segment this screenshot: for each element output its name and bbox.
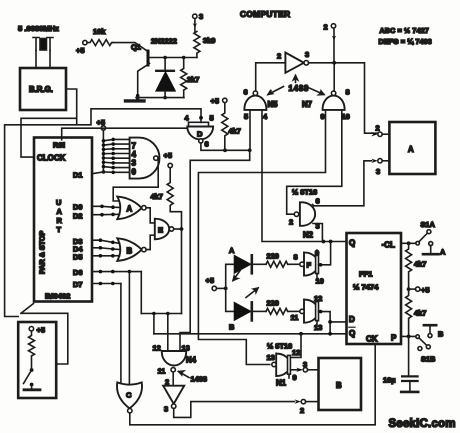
svg-text:3: 3 [305,50,309,59]
terminal +5 (LED feed) [206,276,217,291]
wire N2 pin6 to A pin3 [314,161,372,206]
svg-text:T: T [57,225,62,234]
wire D7 row [92,283,121,285]
inverter 1488 (top) [277,50,309,73]
wire D6 to gate C [128,272,130,384]
svg-text:B: B [438,330,443,339]
contact B [424,325,443,338]
gate D (1/4 7403) [185,114,214,149]
diode CR1 [156,58,175,98]
svg-text:8: 8 [294,253,298,262]
junction diode/rail [163,96,167,100]
wire D2 row [92,213,120,215]
terminal 3 (top) [193,12,204,32]
svg-text:C: C [126,391,132,400]
gate F (1/2 8T16) [294,249,324,286]
wire E net down [181,229,183,314]
svg-text:D7: D7 [73,280,82,289]
svg-text:5 .0688MHz: 5 .0688MHz [18,24,59,33]
wire N7 pin10 to N2 input [287,110,342,214]
svg-text:2: 2 [289,218,293,227]
svg-text:Q: Q [349,329,355,338]
terminal 2 (bottom) [300,399,306,415]
wire Qbar line [154,333,347,335]
svg-text:2: 2 [376,124,380,133]
wire 220 to gate G [288,310,300,312]
svg-text:6: 6 [244,88,248,97]
svg-text:DEFG = ¼ 7403: DEFG = ¼ 7403 [379,38,432,46]
svg-text:11: 11 [291,313,299,322]
svg-text:6: 6 [205,140,209,149]
resistor R 10k [87,27,113,46]
gate N1 (1/2 8T16) [267,342,301,388]
terminal +5 (10k feed) [76,40,87,55]
junction CL [407,241,411,245]
wire D0 row [92,206,120,207]
wire F output to Q line [319,242,331,265]
svg-text:D5: D5 [73,252,82,261]
wire N1 pin12 [291,334,301,358]
svg-text:CLOCK: CLOCK [37,154,66,163]
wire BRG to CLOCK [21,89,77,157]
junction D6 branch [128,270,132,274]
terminal +5 (divider) [409,286,430,295]
wire G output to D pin [319,312,331,334]
switch box (key) [18,322,56,398]
wire N2 pin3 down to Q line [313,224,322,242]
ground (capacitor) [401,391,418,394]
gate N5 (1488) [244,88,279,122]
junction Qbar/N1 pin12 [299,332,303,336]
label 1488 with arrows [268,76,324,95]
wire N7 pin9 trunk [198,110,325,365]
svg-text:B.R.G.: B.R.G. [29,85,53,94]
junction dots D0/D2 [100,205,115,217]
svg-text:FF1: FF1 [359,270,373,279]
svg-text:B: B [229,323,234,332]
junction Qbar/G net [328,332,332,336]
svg-text:6: 6 [316,197,320,206]
resistor 4k7 (gate D pullup) [222,103,241,150]
wire +5 to LED junction [217,287,226,289]
wire gate D tied-input to switch line [5,109,201,317]
svg-text:10µ: 10µ [383,376,395,385]
svg-text:D6: D6 [73,268,82,277]
svg-text:B: B [127,247,133,256]
svg-text:P: P [391,334,397,343]
resistor 3k9 [194,32,215,58]
svg-text:4: 4 [263,112,268,121]
svg-text:4k7: 4k7 [414,309,426,318]
junction net313/N4pin12 [166,312,170,316]
crystal X1 5.0688MHz [18,24,59,68]
svg-text:CK: CK [366,335,378,344]
wire D7 to gate C [120,284,122,386]
svg-text:10: 10 [316,277,324,286]
resistor 2k7 [181,58,200,98]
svg-text:8: 8 [346,88,350,97]
junction P [407,335,411,339]
svg-text:4: 4 [185,114,190,123]
wire terminal2 to N7 out [333,63,335,91]
svg-text:B: B [336,381,342,390]
junction 4k7 pullup [223,148,227,152]
terminal A pin2 [376,124,383,137]
box B [319,358,362,410]
svg-text:+5: +5 [76,46,84,55]
gate E (1/4 7403) [155,219,174,240]
wire LED B anode [226,288,235,311]
wire +5 pullup column [102,130,104,172]
wire N5 pin5 riser [249,110,251,150]
box A [389,122,435,174]
junction (emitter/ground rail) [136,94,140,98]
svg-text:N5: N5 [268,100,279,109]
wire gate D output [201,143,250,150]
svg-text:220: 220 [267,299,279,308]
svg-text:13: 13 [314,323,322,332]
wire ground rail [136,97,184,99]
gate 7430 (8-input NAND) [130,138,160,179]
resistor 4k7 (P pullup) [406,289,427,336]
svg-text:10: 10 [342,112,350,121]
LED B [229,288,266,332]
svg-text:2: 2 [300,406,304,415]
svg-text:RSI: RSI [53,141,65,150]
arrowhead terminal 3 [296,368,303,372]
svg-text:2N2222: 2N2222 [151,37,177,46]
wire D4 row [92,248,120,250]
switch S1B [416,335,436,364]
svg-text:5: 5 [244,112,248,121]
svg-text:12: 12 [292,348,300,357]
svg-text:+5: +5 [421,286,429,295]
junction LED feed [224,287,228,291]
arrowhead A pin3 [371,159,378,163]
svg-text:R: R [57,216,63,225]
transistor Q1 2N2222 [131,37,197,98]
wire to N4 pin 12 [167,314,169,352]
gate N4 (1488) [153,344,197,376]
switch S1A [416,220,436,245]
svg-text:3: 3 [376,167,380,176]
junction Q line F out [329,240,333,244]
svg-text:1488: 1488 [191,375,207,384]
svg-text:3: 3 [164,405,168,414]
wire D1 row [92,172,104,174]
wire terminal3 to box B [308,369,319,371]
node collector junction dots [163,56,167,60]
wire N5 out to inverter input [256,63,286,91]
svg-text:D1: D1 [73,171,82,180]
svg-text:5: 5 [210,114,214,123]
svg-text:·CL: ·CL [382,241,395,250]
wire B out to gate E [146,235,155,249]
wire A pin3 to box [382,160,389,162]
gate A (1/3 7427 NOR) [117,197,146,220]
label 1488 (bottom) with arrow [179,371,207,384]
svg-text:N2: N2 [303,231,314,240]
svg-text:220: 220 [267,252,279,261]
svg-text:A: A [408,145,414,154]
wire dot2 to trunk [180,150,250,351]
terminal +5 (gate E pullup) [164,151,173,168]
wire Qbar branch down [153,314,155,334]
wire D6 ext down [140,272,142,314]
svg-text:½ 8T16: ½ 8T16 [267,342,292,351]
wire RSI to gate D [62,128,190,140]
svg-text:4k7: 4k7 [229,127,241,136]
svg-text:+5: +5 [37,326,45,335]
junction dots D6 [99,270,115,274]
svg-text:9: 9 [293,373,297,382]
svg-text:COMPUTER: COMPUTER [240,10,290,19]
svg-text:A: A [229,246,235,255]
wire 7430 output to gate A [113,158,158,201]
svg-text:E: E [158,226,163,235]
junction Q line N2 out [322,240,326,244]
junction dots D3/D4/D5 [99,238,115,257]
wire LED A anode [226,264,235,288]
svg-text:A: A [127,205,133,214]
svg-text:U: U [56,198,61,207]
junction gate D input [199,116,203,120]
capacitor 10u [383,336,418,390]
svg-text:½ 8T16: ½ 8T16 [292,188,317,197]
svg-text:+5: +5 [164,151,172,160]
terminal 3 (box B) [303,360,308,372]
wire N5 pin4 to FF1 Q line [262,110,347,242]
svg-text:3: 3 [132,159,137,168]
gate C (1/3 7427 NOR) [117,382,142,413]
svg-text:½ 7474: ½ 7474 [353,283,379,292]
svg-text:4k7: 4k7 [414,260,426,269]
svg-text:PAR & STOP: PAR & STOP [38,231,47,274]
wire A pin2 to box [382,133,389,135]
svg-text:3: 3 [199,12,203,21]
svg-text:+5: +5 [211,97,219,106]
arrowhead A pin2 [371,132,378,136]
svg-text:F: F [307,261,312,270]
wire gate C out to FF1 CK [130,344,375,425]
terminal +5 (7430 pullup bus) [97,118,106,130]
gate N7 (1488) [302,88,350,122]
junction dots pullup bus [102,138,115,175]
wire N4 out to inverter [165,372,173,387]
resistor 4k7 (CL pullup) [406,243,427,289]
resistor 220 (LED A) [266,252,288,268]
wire inverter3 out to terminal 2 [174,402,295,418]
svg-text:3k9: 3k9 [203,36,215,45]
svg-text:N4: N4 [186,356,197,365]
FF1 1/2 7474 [347,233,402,344]
wire P line [401,335,416,337]
svg-text:2k7: 2k7 [187,75,199,84]
svg-text:2: 2 [324,23,328,32]
svg-text:+5: +5 [97,118,105,127]
terminal 2 (top) [324,23,337,63]
junction D pin [328,320,332,324]
wire D3 row [92,240,120,243]
wire D pin line [330,321,346,323]
svg-text:SeekIC.com: SeekIC.com [389,418,456,430]
resistor 220 (LED B) [266,299,288,315]
wire 220 to gate F [288,263,300,265]
svg-text:0: 0 [132,168,137,177]
junction net313/Qbar [152,312,156,316]
svg-text:Q1: Q1 [131,43,141,52]
svg-text:D: D [349,315,355,324]
wire N2 pin6 stub [313,205,314,206]
svg-text:IM6402: IM6402 [45,292,70,301]
svg-text:11: 11 [158,367,166,376]
wire net 313 [141,313,181,315]
wire D5 row [92,255,120,257]
svg-text:S1A: S1A [421,220,436,229]
junction +5 [407,287,411,291]
svg-text:N1: N1 [276,379,287,388]
svg-text:10k: 10k [93,27,106,36]
contact A [423,242,446,257]
svg-text:12: 12 [314,294,322,303]
wire N1 output to terminal 3 [290,369,300,371]
wire E output [174,228,182,230]
junction E output [180,227,184,231]
svg-text:13: 13 [182,344,190,353]
svg-text:ABC = ⅓ 7427: ABC = ⅓ 7427 [380,28,430,35]
junction F output [319,263,323,267]
wire CL line [401,242,416,244]
svg-text:D2: D2 [73,211,82,220]
wire inverter out to A pin2 [309,63,378,133]
gate N2 (1/2 8T16) [289,188,320,240]
UART IM6402 [34,138,92,302]
svg-text:1488: 1488 [289,84,310,93]
LED A [229,246,266,281]
B.R.G. box [20,68,66,110]
svg-text:4k7: 4k7 [151,192,163,201]
inverter 1488 (bottom) [163,386,184,414]
gate B (1/3 7427 NOR) [117,238,146,261]
wire 7430 input bus rows [104,139,130,172]
svg-text:Q: Q [349,239,355,248]
resistor 4k7 (gate E pullup) [151,168,182,229]
junction N5 pin5 [248,148,252,152]
svg-text:D0: D0 [73,203,82,212]
wire terminal2 to box B [306,401,319,403]
junction terminal2 [332,61,336,65]
junction G output [319,310,323,314]
junction dots D7 [99,282,115,286]
svg-text:D: D [197,130,203,139]
svg-text:12: 12 [153,344,161,353]
ground (Q1 emitter) [126,98,145,101]
wire 10k to Q1 base [113,43,147,51]
wire A out to gate E [146,208,155,223]
svg-text:9: 9 [321,112,325,121]
wire UART par/stop to switch box [21,304,68,365]
svg-text:A: A [440,248,446,257]
svg-text:3: 3 [303,360,307,369]
svg-text:+5: +5 [206,276,214,285]
svg-text:S1B: S1B [421,355,435,364]
arrowhead terminal2 bottom [295,399,302,403]
svg-text:N7: N7 [302,100,312,109]
terminal +5 (gate D pullup) [211,97,228,106]
gate G (1/2 8T16) [291,294,323,332]
svg-text:A: A [57,207,63,216]
terminal A pin3 [376,159,382,176]
svg-text:13: 13 [267,353,275,362]
svg-text:2: 2 [277,52,281,61]
wire D6 row [92,271,141,273]
